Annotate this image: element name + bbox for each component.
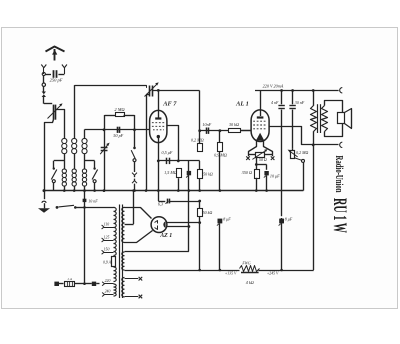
svg-text:8 μF: 8 μF [285,216,293,221]
svg-text:AF 7: AF 7 [162,100,177,107]
svg-text:AL 1: AL 1 [235,100,249,107]
svg-text:50 Ω: 50 Ω [259,157,267,162]
svg-text:50 pF: 50 pF [113,133,123,138]
svg-text:10nF: 10nF [202,122,211,127]
svg-text:50 kΩ: 50 kΩ [203,171,213,176]
svg-text:10 nF: 10 nF [88,199,98,204]
svg-text:110: 110 [104,222,110,226]
svg-text:2 MΩ: 2 MΩ [114,107,125,112]
svg-text:8 μF: 8 μF [223,216,231,221]
svg-text:30 kΩ: 30 kΩ [229,122,239,127]
svg-text:4 nF: 4 nF [271,100,279,105]
svg-text:Radio-Union: Radio-Union [333,156,344,193]
svg-text:RU 1 W: RU 1 W [329,198,350,233]
svg-text:150: 150 [104,248,110,252]
svg-text:240: 240 [105,290,111,294]
svg-text:+245 V: +245 V [267,271,279,275]
svg-text:+135 V: +135 V [225,271,237,275]
svg-text:125: 125 [104,235,110,239]
svg-text:4 kΩ: 4 kΩ [246,280,254,285]
svg-text:30 nF: 30 nF [295,100,305,105]
svg-text:50 kΩ: 50 kΩ [203,210,213,215]
svg-text:220 V 20mA: 220 V 20mA [263,84,284,89]
svg-text:220: 220 [105,279,111,283]
svg-text:10 μF: 10 μF [270,174,280,179]
svg-text:350 Ω: 350 Ω [242,170,252,175]
svg-text:250 pF: 250 pF [50,78,63,83]
svg-text:AZ 1: AZ 1 [159,233,172,239]
svg-text:FWG: FWG [241,261,250,265]
